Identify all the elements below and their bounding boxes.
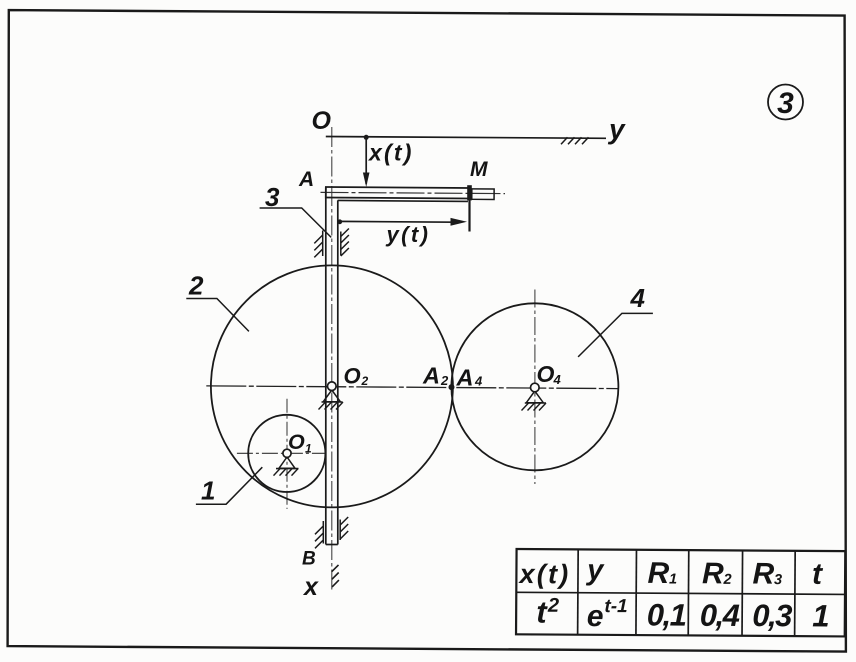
svg-text:e: e (587, 600, 604, 633)
svg-text:y: y (607, 114, 626, 145)
svg-text:2: 2 (547, 595, 559, 617)
svg-text:4: 4 (553, 372, 562, 387)
svg-text:O: O (288, 430, 305, 454)
svg-text:1: 1 (201, 476, 215, 506)
svg-text:0,3: 0,3 (752, 598, 792, 633)
svg-text:R: R (753, 558, 775, 591)
svg-text:3: 3 (265, 182, 280, 212)
svg-text:R: R (702, 557, 724, 590)
svg-text:O: O (312, 107, 332, 135)
svg-text:2: 2 (188, 271, 204, 301)
svg-text:t: t (812, 558, 824, 591)
svg-text:x(t): x(t) (367, 140, 414, 166)
svg-text:t-1: t-1 (604, 596, 627, 617)
svg-text:O: O (537, 361, 555, 387)
svg-text:O: O (344, 364, 361, 389)
svg-text:A: A (298, 168, 314, 191)
svg-text:2: 2 (361, 374, 369, 388)
svg-text:4: 4 (474, 374, 483, 389)
svg-text:x: x (302, 573, 319, 601)
svg-text:1: 1 (812, 598, 829, 633)
svg-text:y(t): y(t) (386, 222, 431, 247)
svg-text:x(t): x(t) (518, 559, 571, 589)
svg-text:A: A (422, 363, 440, 389)
svg-text:y: y (585, 554, 605, 586)
svg-text:A: A (456, 365, 474, 391)
svg-text:2: 2 (440, 373, 449, 388)
svg-text:3: 3 (774, 572, 782, 588)
svg-text:3: 3 (777, 87, 794, 120)
svg-text:0,4: 0,4 (700, 598, 740, 633)
svg-text:0,1: 0,1 (647, 597, 686, 632)
svg-text:B: B (302, 549, 316, 570)
svg-text:2: 2 (723, 572, 732, 588)
svg-text:t: t (536, 595, 548, 630)
svg-text:4: 4 (630, 283, 646, 313)
svg-text:1: 1 (305, 442, 312, 456)
svg-text:R: R (648, 557, 670, 590)
svg-text:1: 1 (669, 571, 677, 587)
svg-text:M: M (470, 158, 488, 181)
